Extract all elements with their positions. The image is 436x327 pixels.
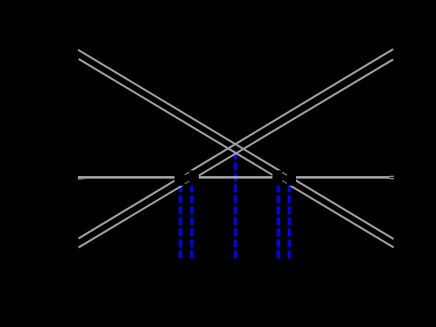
faint D1 line fragment peeking through right junction marker — [282, 172, 287, 175]
black marker covering right junction — [272, 170, 296, 185]
gray diagonal line U1 (upper up-going) — [79, 49, 394, 238]
faint D2 line fragment peeking through right junction marker — [282, 181, 287, 184]
black marker covering left junction — [175, 170, 199, 185]
blue dashed drop line at x=278.4 (right junction, inner) — [277, 178, 280, 259]
gray diagonal line D2 (lower down-going) — [79, 59, 394, 247]
blue dashed drop line at x=180.3 (left junction, outer) — [179, 178, 182, 258]
blue dashed drop line at x=235.4 (center crossing) — [234, 152, 237, 259]
gray diagonal line D1 (upper down-going) — [78, 50, 394, 239]
blue dashed drop line at x=289.3 (right junction, outer) — [288, 178, 291, 258]
faint U2 line fragment peeking through left junction marker — [185, 181, 190, 184]
horizontal line fork tip, left lower — [78, 178, 86, 181]
horizontal line fork tip, right lower — [389, 177, 394, 179]
gray horizontal line (merged pair) — [78, 176, 389, 179]
horizontal line fork tip, right upper — [389, 175, 394, 177]
gray diagonal line U2 (lower up-going) — [79, 59, 394, 247]
blue dashed drop line at x=191.9 (left junction, inner) — [190, 178, 193, 259]
faint U1 line fragment peeking through left junction marker — [185, 172, 190, 175]
